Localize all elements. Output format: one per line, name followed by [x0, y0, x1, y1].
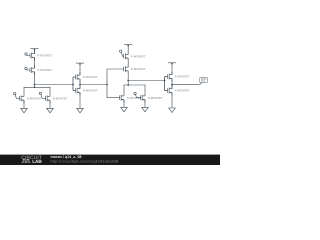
svg-text:N-MOSFET: N-MOSFET	[175, 89, 190, 93]
power flag VDD V1	[30, 49, 38, 51]
ground GND1	[21, 108, 28, 113]
wire NOR1 output rail	[35, 84, 74, 86]
node flag D1	[134, 92, 136, 94]
wire C1 to M7 gate	[121, 53, 124, 57]
svg-text:N-MOSFET: N-MOSFET	[83, 89, 98, 93]
wire M8 drain down	[127, 71, 129, 85]
transistor M11 P-MOSFET	[168, 72, 173, 82]
power flag VDD V3	[124, 45, 132, 47]
power flag VDD V2	[76, 63, 84, 65]
node inverter2 output junction	[171, 84, 173, 86]
node flag A2	[14, 92, 16, 94]
svg-text:http://circuitlab.com/cngbv92u: http://circuitlab.com/cngbv92ubab38	[51, 159, 119, 163]
wire A2 to M3 gate	[15, 95, 19, 98]
footer bar	[0, 155, 220, 165]
wire inverter2 gate bracket	[165, 77, 168, 91]
node inverter1 input junction	[72, 84, 74, 86]
wire M10 drain	[144, 85, 146, 93]
transistor M5 P-MOSFET	[76, 72, 81, 82]
wire V4 stem	[171, 63, 173, 75]
wire A1 to M1 gate	[26, 54, 30, 56]
svg-text:N-MOSFET: N-MOSFET	[148, 96, 163, 100]
wire NOR2 output rail	[128, 80, 164, 82]
wire NMOS connector	[24, 86, 50, 88]
wire M5 drain to M6 drain	[79, 79, 81, 89]
ground GND6	[169, 108, 176, 113]
svg-text:P-MOSFET: P-MOSFET	[83, 75, 98, 79]
ground GND2	[47, 108, 54, 113]
svg-text:N-MOSFET: N-MOSFET	[53, 97, 68, 101]
node flag B1	[25, 67, 27, 69]
node flag C1	[120, 50, 122, 52]
node T junction inv1 out to NOR2	[106, 84, 108, 86]
transistor M7 P-MOSFET	[124, 51, 129, 61]
wire B1 to M2 gate	[26, 69, 30, 71]
wire V2 stem	[79, 63, 81, 75]
svg-text:P-MOSFET: P-MOSFET	[131, 67, 146, 71]
transistor M1 P-MOSFET	[30, 51, 35, 61]
transistor M9 N-MOSFET	[120, 93, 125, 103]
wire V1 stem	[34, 49, 36, 54]
wire inverter2 output rail	[172, 84, 200, 86]
wire M3 drain	[23, 87, 25, 94]
output flag OUT	[200, 78, 208, 85]
wire D1 to M10 gate	[136, 95, 141, 98]
svg-text:P-MOSFET: P-MOSFET	[131, 54, 146, 58]
wire M8 gate lead	[107, 68, 124, 70]
transistor M10 N-MOSFET	[141, 93, 146, 103]
node N2 junction	[127, 80, 129, 82]
node N1 junction	[34, 84, 36, 86]
svg-text:P-MOSFET: P-MOSFET	[37, 68, 52, 72]
node junction on connector2	[127, 84, 129, 86]
wire M6 source to ground	[79, 92, 81, 108]
wire M7 to M8	[127, 58, 129, 67]
ground GND3	[77, 108, 84, 113]
transistor M4 N-MOSFET	[46, 93, 51, 103]
svg-text:moran / q14_a_08: moran / q14_a_08	[51, 155, 82, 159]
transistor M3 N-MOSFET	[20, 93, 25, 103]
transistor M2 P-MOSFET	[30, 65, 35, 75]
wire M4 source to ground	[49, 100, 51, 108]
node junction on connector	[34, 87, 36, 89]
wire M2 drain down	[34, 72, 36, 88]
wire M3 source to ground	[23, 100, 25, 108]
wire vertical x107	[107, 69, 120, 98]
wire M11 drain to M12 drain	[171, 78, 173, 88]
svg-text:P-MOSFET: P-MOSFET	[175, 75, 190, 79]
transistor M12 N-MOSFET	[168, 86, 173, 96]
wire M9 drain	[123, 85, 125, 93]
wire M1 to M2	[34, 57, 36, 68]
power flag VDD V4	[168, 63, 176, 65]
node flag A1	[25, 53, 27, 55]
wire M12 source to ground	[171, 92, 173, 108]
ground GND5	[142, 107, 149, 112]
svg-text:P-MOSFET: P-MOSFET	[37, 54, 52, 58]
svg-text:N-MOSFET: N-MOSFET	[27, 97, 42, 101]
logo waveform	[22, 159, 31, 162]
wire NMOS connector2	[124, 84, 145, 86]
transistor M8 P-MOSFET	[124, 64, 129, 74]
node flag B2	[39, 92, 41, 94]
node inverter2 input junction	[164, 80, 166, 82]
transistor M6 N-MOSFET	[76, 86, 81, 96]
wire inverter1 output rail	[80, 84, 107, 86]
wire M10 source to ground	[144, 100, 146, 108]
ground GND4	[121, 107, 128, 112]
wire B2 to M4 gate	[41, 95, 46, 99]
wire M4 drain	[49, 87, 51, 94]
node inverter1 output junction	[79, 84, 81, 86]
wire inverter1 gate bracket	[73, 77, 75, 91]
wire M9 source to ground	[123, 100, 125, 108]
svg-text:LAB: LAB	[32, 159, 42, 164]
wire V3 stem	[127, 45, 129, 55]
